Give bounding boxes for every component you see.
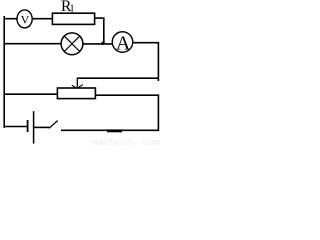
svg-text:A: A: [116, 32, 131, 54]
svg-text:manfen5. com: manfen5. com: [92, 137, 161, 147]
svg-text:V: V: [21, 12, 30, 26]
svg-text:1: 1: [69, 4, 74, 15]
